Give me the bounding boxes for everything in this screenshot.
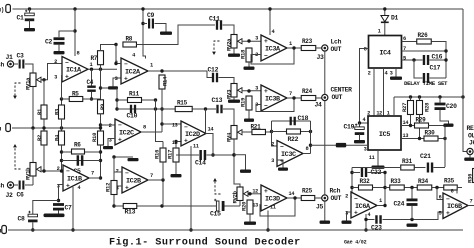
svg-text:−: − (184, 124, 188, 131)
ground below J5 (320, 221, 331, 224)
svg-text:8: 8 (364, 47, 367, 53)
wire C19 stub (359, 123, 361, 127)
svg-text:R26: R26 (418, 32, 429, 39)
capacitor C5 (77, 155, 80, 166)
svg-text:ch: ch (0, 62, 5, 69)
op-amp IC1B (63, 165, 89, 191)
svg-text:R6: R6 (74, 142, 81, 149)
wire IC2B plus stub (117, 185, 123, 187)
capacitor C8 (28, 214, 38, 217)
resistor R33 (390, 185, 405, 190)
wire RV2a wiper to IC3A (242, 40, 261, 42)
wire RV1b bottom (32, 176, 34, 185)
svg-text:1: 1 (90, 62, 93, 68)
svg-text:5: 5 (403, 56, 406, 62)
wire IC3B output (287, 97, 301, 99)
wire RV1b wiper (41, 170, 63, 172)
wire C20 top stub (439, 97, 441, 103)
wire R1 top (43, 80, 45, 105)
svg-text:RV3: RV3 (226, 89, 233, 99)
op-amp IC6B (443, 193, 468, 219)
wire R26 to C17 col (432, 42, 447, 79)
junction rail/IC3A supply (268, 7, 271, 10)
capacitor C1 (25, 13, 35, 16)
svg-text:+: + (264, 188, 268, 195)
resistor R5 (69, 97, 83, 102)
resistor R3 (59, 105, 65, 119)
svg-text:R20: R20 (241, 201, 248, 211)
wire C4 stub (91, 69, 93, 86)
svg-text:C1: C1 (17, 15, 25, 22)
svg-text:13: 13 (172, 123, 178, 129)
svg-text:C15: C15 (210, 211, 221, 218)
wire C15 right (225, 205, 241, 207)
wire D1 from rail (384, 9, 386, 15)
svg-text:3: 3 (115, 76, 118, 82)
capacitor C9 (148, 19, 150, 29)
svg-text:R1: R1 (36, 108, 43, 115)
resistor R29 (415, 123, 429, 128)
ground below J6 (464, 158, 474, 161)
resistor R27 (408, 101, 414, 115)
junction R8/feedback (114, 43, 117, 46)
gang link RV2a dashed arrow (212, 41, 219, 55)
svg-text:8: 8 (451, 189, 454, 195)
svg-text:RV2b: RV2b (232, 190, 239, 203)
svg-text:R19: R19 (240, 97, 247, 107)
svg-text:u): u) (0, 7, 4, 14)
svg-text:R21: R21 (251, 124, 262, 131)
junction C22 right (383, 171, 386, 174)
resistor R1 (41, 105, 47, 119)
wire RV1a bottom to bias rail (32, 87, 34, 129)
svg-text:C24: C24 (394, 201, 405, 208)
capacitor C17 (423, 73, 425, 83)
junction pin11/0V rail (266, 228, 269, 231)
connector J4 CENTER OUT (322, 94, 328, 100)
wire jack sleeve bus J4-J5 (324, 101, 326, 195)
wire IC1A output (88, 68, 117, 70)
svg-text:1: 1 (387, 111, 390, 117)
svg-text:+: + (264, 88, 268, 95)
svg-text:+: + (264, 38, 268, 45)
resistor R22 (287, 129, 301, 134)
junction bias rail end (99, 126, 102, 129)
wire R17 bottom to ground (175, 162, 177, 174)
svg-text:R7: R7 (91, 55, 98, 62)
wire R19 to ground (248, 110, 250, 119)
wire C17 right (430, 77, 447, 79)
svg-text:R29: R29 (416, 117, 427, 124)
wire C2 branch (59, 31, 75, 37)
wire C1 stub (29, 9, 31, 13)
resistor R11 (128, 98, 142, 103)
wire R2 bottom to wiper row (43, 145, 45, 171)
wire R12 column (113, 157, 115, 206)
connector J5 Rch OUT (322, 195, 328, 201)
svg-text:IC1B: IC1B (67, 175, 82, 183)
wire IC6B minus entry (437, 188, 443, 200)
svg-text:IC2A: IC2A (125, 68, 141, 76)
wire IC3D pin11 down (267, 211, 269, 231)
svg-text:1: 1 (289, 41, 292, 47)
wire R1 to rail (43, 119, 45, 131)
wire R11 row (116, 88, 118, 100)
junction R32 left (350, 186, 353, 189)
svg-text:Lch: Lch (331, 39, 342, 46)
svg-text:J1: J1 (6, 54, 14, 61)
wire C20 to ground (440, 110, 449, 124)
wire R6 row (62, 151, 101, 153)
wire IC2C output (141, 131, 162, 133)
ground below RV3 (228, 100, 240, 103)
wire R20 to ground (249, 214, 251, 222)
wire rear feed row (311, 144, 337, 146)
wire R15 row (162, 108, 175, 110)
junction R32 right (383, 186, 386, 189)
junction output/R14 (160, 69, 163, 72)
wire IC6A minus entry (351, 196, 352, 198)
wire IC6A pin4 down (365, 214, 367, 230)
wire IC2D output (206, 134, 213, 156)
terminator bar rear-feed row (336, 143, 346, 148)
wire D1 to IC4 pin1 (384, 23, 386, 36)
capacitor C24 (407, 199, 418, 202)
wire C14 row (176, 154, 199, 156)
junction supply row/right edge (461, 95, 464, 98)
svg-text:R34: R34 (418, 178, 429, 185)
wire R30 right (438, 138, 445, 140)
svg-text:J2: J2 (6, 192, 14, 199)
svg-text:7: 7 (150, 173, 153, 179)
wire R17 top (175, 142, 177, 149)
junction R17/IC2D plus (174, 140, 177, 143)
svg-text:4: 4 (78, 185, 81, 191)
wire y88 row (101, 88, 118, 109)
junction R22 right (309, 130, 312, 133)
wire R35 right (457, 187, 462, 189)
resistor R20 (247, 200, 253, 214)
svg-text:−: − (446, 196, 450, 203)
svg-text:2: 2 (57, 166, 60, 172)
wire IC5 pin13 row (401, 138, 424, 140)
resistor R35 (444, 185, 458, 190)
wire C4 to R5 row (91, 91, 93, 99)
wire IC2A supply column (142, 9, 144, 45)
resistor R7 (98, 51, 104, 65)
wire C24 branch (411, 188, 413, 199)
wire R15 to C13 (192, 108, 216, 110)
resistor R10 (98, 131, 104, 145)
junction R27 top (409, 95, 412, 98)
wire J5 sleeve to ground (324, 201, 326, 220)
svg-text:OUT: OUT (331, 195, 342, 202)
svg-text:D1: D1 (391, 15, 399, 22)
wire C2 to ground (58, 44, 60, 51)
svg-text:7: 7 (289, 91, 292, 97)
wire C24 bottom (411, 206, 413, 220)
svg-text:OUT: OUT (331, 46, 342, 53)
ground bar IC2A plus (108, 86, 118, 89)
junction C23 row (364, 218, 367, 221)
wire R32 row (352, 187, 358, 189)
wire RV1b chain top (32, 128, 34, 163)
svg-text:C19: C19 (344, 124, 355, 131)
wire IC6A minus column (351, 168, 353, 198)
capacitor C16 (423, 55, 425, 65)
ground below R19 (244, 119, 254, 122)
wire C22 row (352, 172, 360, 174)
junction bias/pot chain (31, 126, 34, 129)
svg-text:2: 2 (368, 71, 371, 77)
gang link RV1a dashed arrow (13, 83, 20, 99)
svg-text:2: 2 (345, 194, 348, 200)
svg-text:IC2C: IC2C (119, 129, 134, 137)
junction C20 top (438, 95, 441, 98)
wire R28 bottom (419, 115, 421, 139)
capacitor C7 (53, 203, 64, 206)
junction R14/R15 row (160, 107, 163, 110)
wire R7 feedback (100, 65, 102, 70)
wire chain ground tap (234, 155, 246, 170)
ground below R18 (244, 67, 255, 70)
junction pin4/0V rail (71, 228, 74, 231)
junction R6 row right (99, 150, 102, 153)
wire IC2B minus row (114, 157, 133, 172)
junction wiper/R1 (42, 78, 45, 81)
junction R29/col (443, 124, 446, 127)
svg-text:IC3D: IC3D (265, 195, 280, 203)
svg-text:R33: R33 (391, 178, 402, 185)
svg-text:R2: R2 (36, 134, 43, 141)
wire C9 to ground (155, 24, 167, 32)
junction C7/C8 row (57, 199, 60, 202)
wire C14 right (207, 154, 235, 156)
wire C8 branch (33, 201, 59, 215)
ground IC5 pin11 (372, 166, 385, 169)
wire R9 to bias rail (100, 114, 102, 131)
svg-text:C12: C12 (208, 67, 219, 74)
svg-text:C9: C9 (147, 12, 155, 19)
svg-text:R12: R12 (105, 182, 112, 192)
wire C7 bottom (58, 210, 60, 213)
ground IC2B minus row (128, 158, 139, 161)
svg-text:IC6A: IC6A (355, 203, 371, 211)
svg-text:IC1A: IC1A (66, 67, 82, 75)
svg-text:C4: C4 (87, 79, 94, 86)
wire IC1B pin4 down (72, 187, 74, 230)
wire C6 to RV1b bottom (25, 184, 33, 186)
junction R21/R22/feedback col (270, 130, 273, 133)
capacitor C13 (216, 105, 218, 114)
wire IC4 pin6 row (402, 41, 418, 43)
svg-text:R8: R8 (126, 36, 133, 43)
svg-text:R28: R28 (424, 102, 431, 112)
resistor R25 (301, 196, 315, 201)
wire R24 to J4 (316, 97, 322, 99)
svg-text:13: 13 (403, 133, 409, 139)
junction C24/ground (410, 218, 413, 221)
resistor R23 (301, 46, 316, 51)
junction C9 tap (141, 22, 144, 25)
junction IC1B output (99, 176, 102, 179)
svg-text:RV1a: RV1a (25, 77, 32, 90)
junction feedback/output (204, 107, 207, 110)
wire IC1A plus feedback (61, 76, 64, 100)
svg-text:12: 12 (252, 189, 258, 195)
svg-text:3: 3 (54, 75, 57, 81)
svg-text:2: 2 (54, 59, 57, 65)
op-amp IC3C (277, 141, 303, 167)
ground below R20 (244, 222, 256, 225)
wire RV4 wiper to R21 (242, 131, 252, 133)
svg-text:IC3A: IC3A (265, 45, 281, 53)
resistor R34 (417, 185, 432, 190)
svg-text:R24: R24 (302, 88, 313, 95)
wire R28 top stub (419, 97, 421, 101)
wire RV2b wiper to IC3D (248, 193, 261, 195)
junction rail/D1 (383, 7, 386, 10)
wire R21 row (266, 131, 272, 133)
wire J6 sleeve (469, 155, 471, 158)
wire IC3C feedback right column (310, 121, 312, 154)
ground below C9 (160, 32, 172, 35)
junction wiper/R19 (247, 89, 250, 92)
wire IC1A-out column to R9 (100, 99, 102, 100)
resistor R6 (72, 149, 85, 154)
wire C23 to C24 junction (383, 212, 444, 220)
svg-text:12: 12 (172, 140, 178, 146)
wire right edge from rail (462, 9, 464, 97)
svg-text:R18: R18 (240, 49, 247, 59)
svg-text:Rch: Rch (330, 188, 341, 195)
wire C10 row (117, 108, 162, 110)
bias rail (u) mid-left (12, 127, 102, 129)
junction IC2C minus row (99, 123, 102, 126)
junction C16/C17 (412, 58, 415, 61)
wire C17 branch (414, 60, 423, 78)
capacitor C2 (54, 37, 65, 40)
wire C8 to 0V rail (32, 222, 34, 230)
junction R11 left (115, 98, 118, 101)
wire +V top rail (13, 8, 464, 10)
wire IC2D pin11 supply down (190, 146, 192, 230)
svg-text:ch: ch (0, 183, 5, 190)
resistor R12 (111, 181, 117, 195)
junction output/C4 (90, 68, 93, 71)
wire R14 bottom to minus node (161, 89, 163, 132)
junction minus row (112, 155, 115, 158)
wire IC4 pin7 row (402, 50, 447, 52)
potentiometer RV1a (30, 73, 41, 87)
resistor R2 (41, 131, 47, 145)
svg-text:8: 8 (306, 146, 309, 152)
wire IC1B plus to C7 (59, 185, 64, 202)
wire IC2C plus ground (108, 139, 115, 147)
op-amp IC3A (261, 35, 287, 61)
resistor R28 (417, 101, 423, 115)
gang link RV1b dashed arrow (13, 144, 20, 169)
junction R27/pin14 (409, 124, 412, 127)
wire IC2B output (148, 179, 163, 181)
wire C23 row (366, 219, 375, 221)
svg-text:1: 1 (150, 63, 153, 69)
junction C1/top rail (28, 7, 31, 10)
svg-text:C18: C18 (298, 115, 309, 122)
svg-text:R10: R10 (91, 132, 98, 142)
wire R31 to C21 (415, 167, 426, 169)
resistor R31 (401, 165, 415, 170)
potentiometer RV1b (30, 163, 41, 177)
resistor R32 (359, 185, 373, 190)
svg-text:R4: R4 (54, 134, 61, 141)
junction minus (114, 62, 117, 65)
wire IC4 pin2 to IC5 (373, 68, 375, 116)
wire IC3A feedback loop (251, 48, 294, 64)
op-amp IC2A (121, 58, 148, 84)
resistor R21 (252, 129, 266, 134)
svg-text:3: 3 (255, 36, 258, 42)
svg-text:2: 2 (271, 142, 274, 148)
wire IC6A plus stub (347, 212, 352, 221)
junction pin11/0V rail (189, 228, 192, 231)
junction wiper/R20 (248, 192, 251, 195)
wire R4 bottom feedback column (61, 145, 63, 171)
wire IC3A pin4 supply (269, 9, 271, 35)
wire R5 row (62, 98, 101, 100)
wire R18 to ground (248, 62, 250, 67)
capacitor C20 (435, 103, 446, 106)
svg-text:R30: R30 (425, 130, 436, 137)
svg-text:−: − (66, 168, 70, 175)
svg-text:−: − (354, 195, 358, 202)
svg-text:7: 7 (470, 199, 473, 205)
op-amp IC3B (261, 85, 287, 111)
wire R16 col to R13 row (162, 180, 164, 206)
svg-text:C8: C8 (18, 216, 26, 223)
wire C21 right (434, 167, 446, 169)
junction output/R7 (99, 68, 102, 71)
svg-text:−: − (65, 59, 69, 66)
junction C5 row right (99, 159, 102, 162)
op-amp IC2B (122, 167, 148, 193)
svg-text:R15: R15 (177, 100, 188, 107)
wire R29 right (429, 125, 446, 127)
wire R13 row (114, 205, 213, 207)
junction IC2D minus row (160, 122, 163, 125)
svg-text:J6: J6 (469, 140, 474, 147)
wire IC3C plus ground (277, 160, 283, 168)
svg-text:11: 11 (193, 144, 199, 150)
wire C5 row (62, 160, 101, 162)
svg-text:8: 8 (143, 125, 146, 131)
svg-text:R13: R13 (125, 209, 136, 216)
resistor R18 (246, 48, 252, 62)
resistor R17 (173, 148, 179, 162)
wire IC2A output (148, 71, 212, 78)
resistor R14 (159, 75, 165, 89)
junction R30/col (443, 137, 446, 140)
junction C16/col (444, 58, 447, 61)
ground below C24 (407, 224, 418, 227)
resistor R4 (59, 131, 65, 145)
wire R22 row right (301, 131, 311, 133)
wire RV1a wiper (41, 64, 62, 80)
potentiometer RV2a (231, 35, 242, 49)
wire R33 row (385, 187, 390, 189)
junction bias/R2 (42, 126, 45, 129)
wire R3 column (61, 76, 63, 106)
